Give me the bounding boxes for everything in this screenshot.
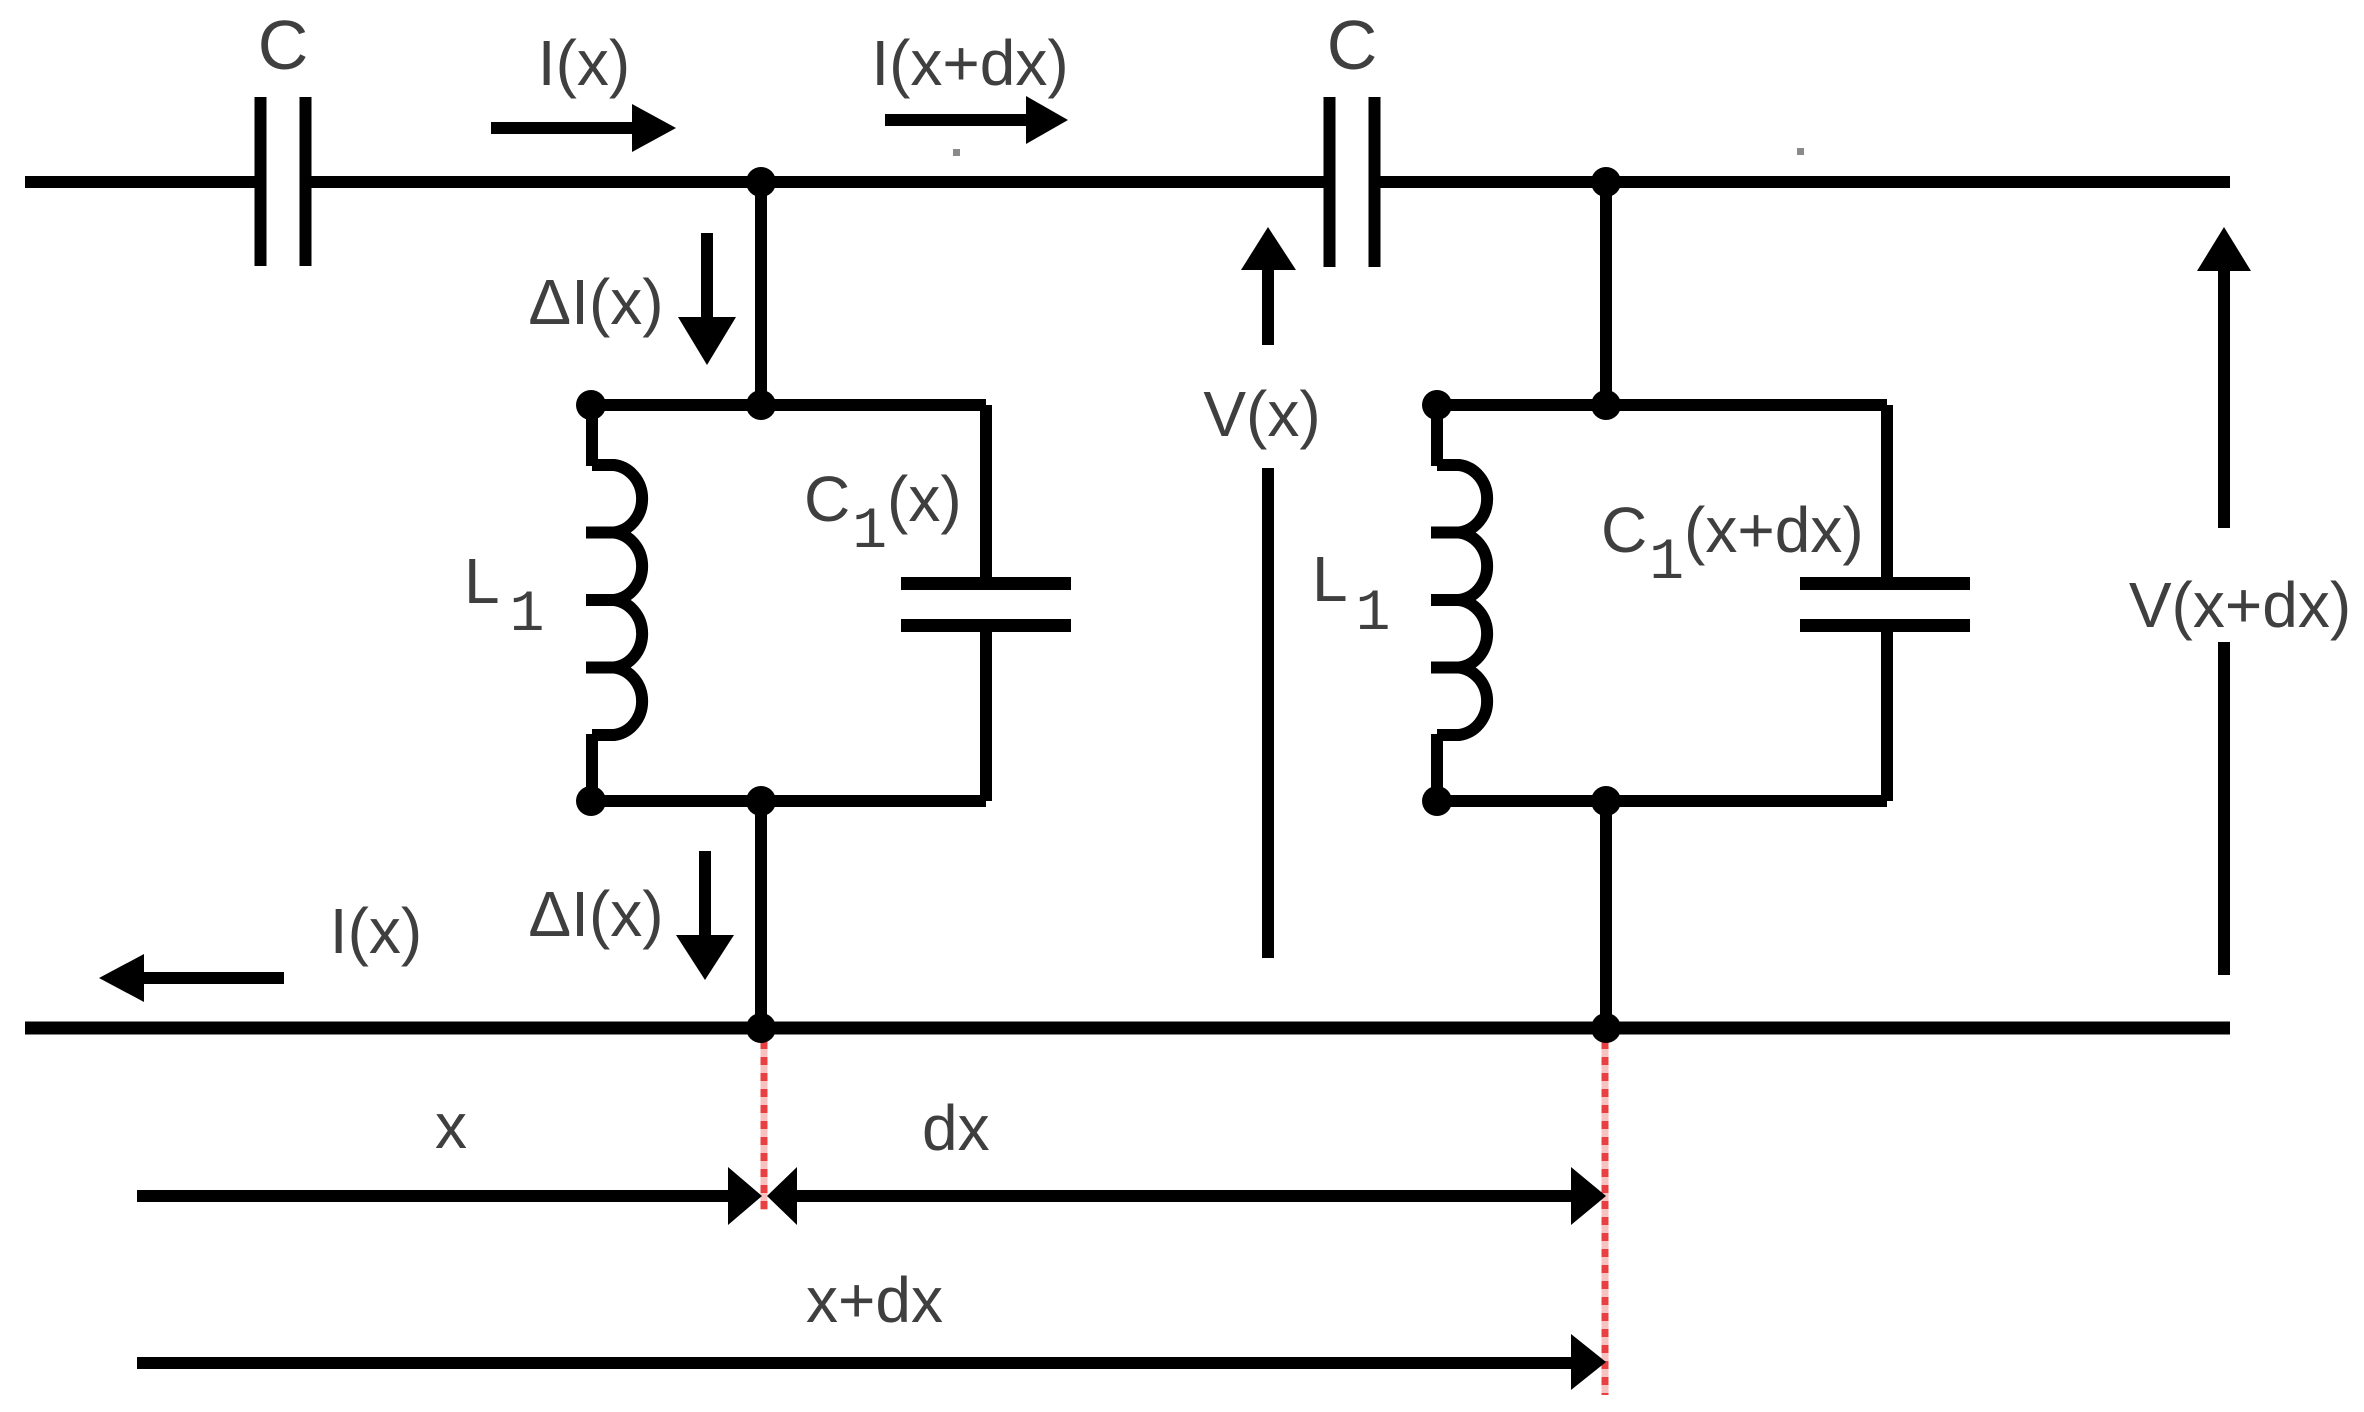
tank 1: bottom wire (591, 795, 986, 807)
wire: top rail middle segment (310, 176, 1326, 188)
tank 1 right branch lower (980, 626, 992, 801)
node: tank1 top junction (746, 390, 776, 420)
svg-text:ΔI(x): ΔI(x) (528, 878, 663, 950)
svg-text:x+dx: x+dx (806, 1264, 943, 1336)
tank 2 right branch lower (1881, 626, 1893, 801)
node: tank1 top-left (576, 390, 606, 420)
node: top rail at x+dx (1591, 167, 1621, 197)
svg-text:C: C (258, 6, 309, 84)
tank 2 right branch upper (1881, 405, 1893, 583)
wire: node A bottom drop (755, 801, 767, 1028)
node: top rail at x (746, 167, 776, 197)
svg-text:I(x): I(x) (330, 895, 422, 967)
svg-text:V(x+dx): V(x+dx) (2129, 569, 2351, 641)
arrow I(x+dx) (885, 96, 1068, 144)
tank 2: bottom wire (1437, 795, 1887, 807)
svg-text:C: C (1327, 6, 1378, 84)
wire: top rail right segment (1379, 176, 2230, 188)
svg-text:I(x): I(x) (538, 27, 630, 99)
wire: junction drop at node A top (755, 182, 767, 405)
capacitor C1(x) plates (901, 584, 1071, 626)
measurement arrow dx (767, 1167, 1606, 1225)
arrow deltaI(x) top (down) (678, 233, 736, 365)
node: tank2 top junction (1591, 390, 1621, 420)
inductor L1 (left tank) (586, 405, 642, 801)
tank 1: top wire (591, 399, 986, 411)
svg-text:dx: dx (922, 1092, 990, 1164)
wire: node B bottom drop (1600, 801, 1612, 1028)
node: tank1 bottom junction (746, 786, 776, 816)
wire: junction drop at node B top (1600, 182, 1612, 405)
capacitor C1(x+dx) plates (1800, 584, 1970, 626)
arrow I(x) bottom (left) (99, 954, 284, 1002)
node: bottom rail at x (746, 1013, 776, 1043)
tank 2: top wire (1437, 399, 1887, 411)
stray dot 2 (1797, 148, 1804, 155)
red dotted reference line at x+dx (node B projection) (1602, 1041, 1609, 1395)
node: tank1 bottom-left (576, 786, 606, 816)
node: tank2 bottom junction (1591, 786, 1621, 816)
inductor L1 (right tank) (1431, 405, 1487, 801)
wire: bottom rail (25, 1022, 2230, 1035)
arrow I(x) top (491, 104, 676, 152)
capacitor C (left series cap) (261, 97, 306, 266)
capacitor C (right series cap) (1330, 97, 1375, 267)
measurement arrow x (137, 1167, 762, 1225)
measurement arrow x+dx (137, 1334, 1606, 1390)
svg-text:ΔI(x): ΔI(x) (528, 266, 663, 338)
red dotted reference line at x (node A projection) (761, 1041, 768, 1210)
node: tank2 top-left (1422, 390, 1452, 420)
wire: top rail left segment (25, 176, 256, 188)
tank 1 right branch upper (980, 405, 992, 583)
svg-text:x: x (435, 1090, 467, 1162)
node: tank2 bottom-left (1422, 786, 1452, 816)
svg-text:V(x): V(x) (1203, 378, 1320, 450)
stray dot 1 (953, 149, 960, 156)
arrow V(x) (up) (1241, 227, 1296, 958)
svg-text:I(x+dx): I(x+dx) (871, 27, 1068, 99)
arrow deltaI(x) bottom (down) (676, 851, 734, 980)
node: bottom rail at x+dx (1591, 1013, 1621, 1043)
arrow V(x+dx) (up) (2197, 227, 2251, 975)
